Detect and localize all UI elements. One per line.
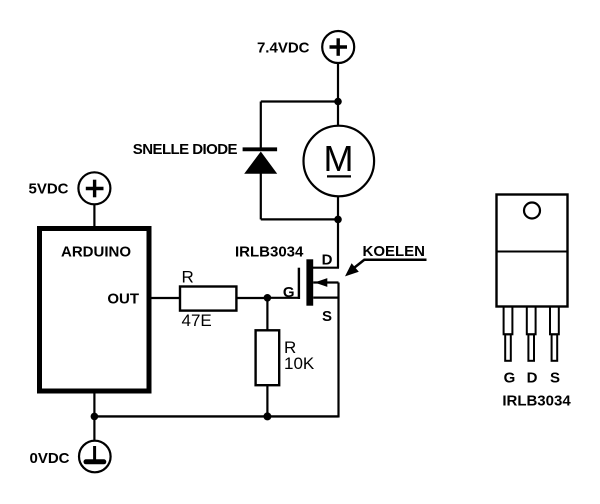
- transistor Q1 arrowhead: [315, 278, 328, 287]
- svg-text:S: S: [550, 370, 560, 387]
- supply V2 5VDC circle: [78, 172, 110, 204]
- svg-text:0VDC: 0VDC: [29, 450, 69, 467]
- transistor Q1 channel bar: [306, 259, 313, 305]
- package TO-220 body: [497, 195, 568, 307]
- wire gate: [267, 297, 299, 299]
- svg-text:M: M: [324, 138, 354, 179]
- package tab divider: [497, 251, 568, 253]
- KOELEN arrowhead: [345, 263, 359, 276]
- package leg D: [527, 307, 536, 361]
- motor M underline: [327, 175, 351, 177]
- KOELEN underline: [364, 259, 427, 262]
- junction dot rail arduino: [91, 413, 99, 421]
- wire diode top lead: [260, 102, 262, 149]
- motor M circle: [304, 126, 375, 197]
- wire R2 to ground rail: [266, 385, 268, 416]
- svg-text:D: D: [322, 252, 333, 269]
- ground symbol 0VDC: [79, 441, 111, 473]
- svg-text:ARDUINO: ARDUINO: [61, 244, 131, 261]
- junction dot rail R2: [263, 412, 271, 420]
- wire bottom branch diode to motor: [261, 218, 338, 220]
- resistor R2 body: [256, 330, 280, 385]
- transistor Q1 gate line: [298, 268, 300, 299]
- wire top branch to diode: [261, 100, 338, 102]
- package leg S: [550, 307, 559, 361]
- wire diode bottom lead: [260, 174, 262, 220]
- svg-text:47E: 47E: [182, 311, 212, 330]
- wire motor bottom to junction: [337, 196, 339, 219]
- diode D1 cathode bar: [243, 147, 278, 151]
- wire drain stub: [312, 267, 339, 269]
- svg-text:IRLB3034: IRLB3034: [502, 393, 571, 410]
- resistor R1 body: [180, 287, 236, 311]
- svg-text:G: G: [504, 370, 516, 387]
- wire OUT to R1: [150, 297, 180, 299]
- transistor Q1 body arrow stub: [313, 281, 338, 283]
- junction dot gate node: [264, 294, 272, 302]
- svg-text:7.4VDC: 7.4VDC: [257, 40, 310, 57]
- svg-text:10K: 10K: [284, 354, 315, 373]
- package mounting hole: [524, 203, 540, 219]
- diode D1 anode triangle: [244, 152, 277, 174]
- svg-text:D: D: [527, 370, 538, 387]
- wire ground rail: [94, 415, 338, 417]
- junction dot top: [334, 98, 342, 106]
- svg-text:5VDC: 5VDC: [28, 181, 68, 198]
- wire arduino bottom to ground: [93, 393, 95, 441]
- junction dot motor bottom: [334, 216, 342, 224]
- wire 5VDC to arduino top: [93, 204, 95, 226]
- package leg G: [504, 307, 513, 361]
- wire source vertical: [337, 283, 339, 418]
- supply V1 7.4VDC circle: [322, 31, 354, 63]
- wire R1 to gate node: [236, 297, 267, 299]
- svg-text:S: S: [322, 308, 332, 325]
- wire V1 to motor top: [337, 63, 339, 127]
- svg-text:OUT: OUT: [107, 291, 139, 308]
- svg-text:G: G: [283, 284, 295, 301]
- arduino U1 box: [40, 229, 150, 392]
- svg-text:R: R: [182, 267, 194, 286]
- svg-text:SNELLE DIODE: SNELLE DIODE: [133, 141, 238, 158]
- svg-text:IRLB3034: IRLB3034: [235, 244, 304, 261]
- KOELEN arrow line: [352, 260, 364, 270]
- wire drain vertical: [337, 219, 339, 267]
- svg-text:KOELEN: KOELEN: [363, 243, 426, 260]
- transistor Q1 source stub: [313, 297, 338, 299]
- wire gate node to R2: [266, 298, 268, 331]
